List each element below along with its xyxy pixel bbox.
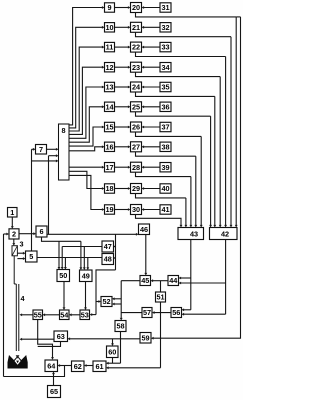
- svg-text:38: 38: [161, 142, 169, 151]
- svg-text:13: 13: [105, 83, 113, 92]
- svg-text:35: 35: [161, 83, 169, 92]
- svg-text:17: 17: [105, 163, 113, 172]
- svg-text:30: 30: [132, 205, 140, 214]
- svg-text:22: 22: [132, 43, 140, 52]
- svg-text:42: 42: [221, 230, 229, 239]
- svg-text:2: 2: [12, 229, 16, 238]
- svg-text:24: 24: [132, 83, 141, 92]
- svg-text:10: 10: [105, 23, 113, 32]
- svg-text:41: 41: [161, 205, 169, 214]
- svg-text:33: 33: [161, 43, 169, 52]
- svg-text:65: 65: [50, 387, 58, 396]
- svg-text:34: 34: [161, 63, 170, 72]
- svg-text:26: 26: [132, 123, 140, 132]
- svg-text:11: 11: [106, 43, 114, 52]
- svg-text:14: 14: [105, 102, 114, 111]
- svg-text:29: 29: [132, 184, 140, 193]
- svg-text:7: 7: [39, 145, 43, 154]
- svg-text:1: 1: [10, 208, 14, 217]
- svg-text:54: 54: [60, 310, 69, 319]
- svg-text:27: 27: [132, 142, 140, 151]
- svg-text:18: 18: [105, 184, 113, 193]
- svg-text:6: 6: [39, 227, 43, 236]
- svg-text:40: 40: [161, 184, 169, 193]
- svg-text:28: 28: [132, 163, 140, 172]
- svg-text:5: 5: [29, 252, 33, 261]
- svg-text:31: 31: [161, 3, 169, 12]
- svg-text:46: 46: [140, 225, 148, 234]
- svg-text:51: 51: [156, 293, 164, 302]
- svg-text:8: 8: [61, 126, 65, 135]
- svg-text:3: 3: [20, 240, 24, 249]
- svg-text:36: 36: [161, 102, 169, 111]
- svg-text:49: 49: [82, 271, 90, 280]
- svg-text:37: 37: [161, 123, 169, 132]
- svg-text:50: 50: [59, 271, 67, 280]
- svg-text:16: 16: [105, 142, 113, 151]
- svg-text:20: 20: [132, 3, 140, 12]
- svg-text:60: 60: [108, 347, 116, 356]
- svg-text:61: 61: [95, 362, 103, 371]
- svg-text:12: 12: [105, 63, 113, 72]
- svg-text:63: 63: [57, 332, 65, 341]
- svg-text:57: 57: [143, 308, 151, 317]
- svg-text:59: 59: [141, 333, 149, 342]
- svg-text:62: 62: [74, 362, 82, 371]
- svg-text:43: 43: [190, 230, 198, 239]
- svg-text:32: 32: [161, 23, 169, 32]
- svg-text:53: 53: [81, 310, 89, 319]
- svg-text:48: 48: [104, 255, 112, 264]
- svg-text:55: 55: [34, 310, 42, 319]
- svg-text:58: 58: [116, 322, 124, 331]
- svg-text:44: 44: [169, 276, 178, 285]
- svg-text:9: 9: [107, 3, 111, 12]
- svg-text:52: 52: [102, 297, 110, 306]
- svg-text:19: 19: [105, 205, 113, 214]
- svg-text:64: 64: [47, 361, 56, 370]
- svg-text:56: 56: [172, 308, 180, 317]
- svg-text:25: 25: [132, 102, 140, 111]
- svg-text:39: 39: [161, 163, 169, 172]
- svg-text:47: 47: [104, 242, 112, 251]
- svg-text:45: 45: [141, 276, 149, 285]
- svg-text:21: 21: [132, 23, 140, 32]
- svg-text:15: 15: [105, 123, 113, 132]
- svg-text:23: 23: [132, 63, 140, 72]
